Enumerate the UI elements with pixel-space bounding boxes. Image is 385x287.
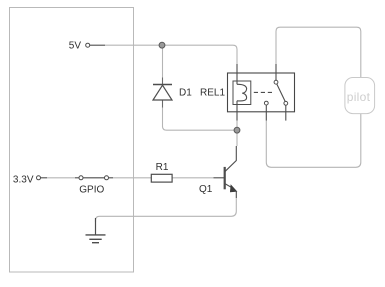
svg-text:Q1: Q1 [199,184,213,195]
svg-text:D1: D1 [179,88,192,99]
svg-text:pilot: pilot [347,90,371,104]
svg-text:R1: R1 [156,162,169,173]
svg-text:REL1: REL1 [200,88,225,99]
svg-text:5V: 5V [69,41,82,52]
svg-text:GPIO: GPIO [79,184,104,195]
svg-text:3.3V: 3.3V [13,175,34,186]
